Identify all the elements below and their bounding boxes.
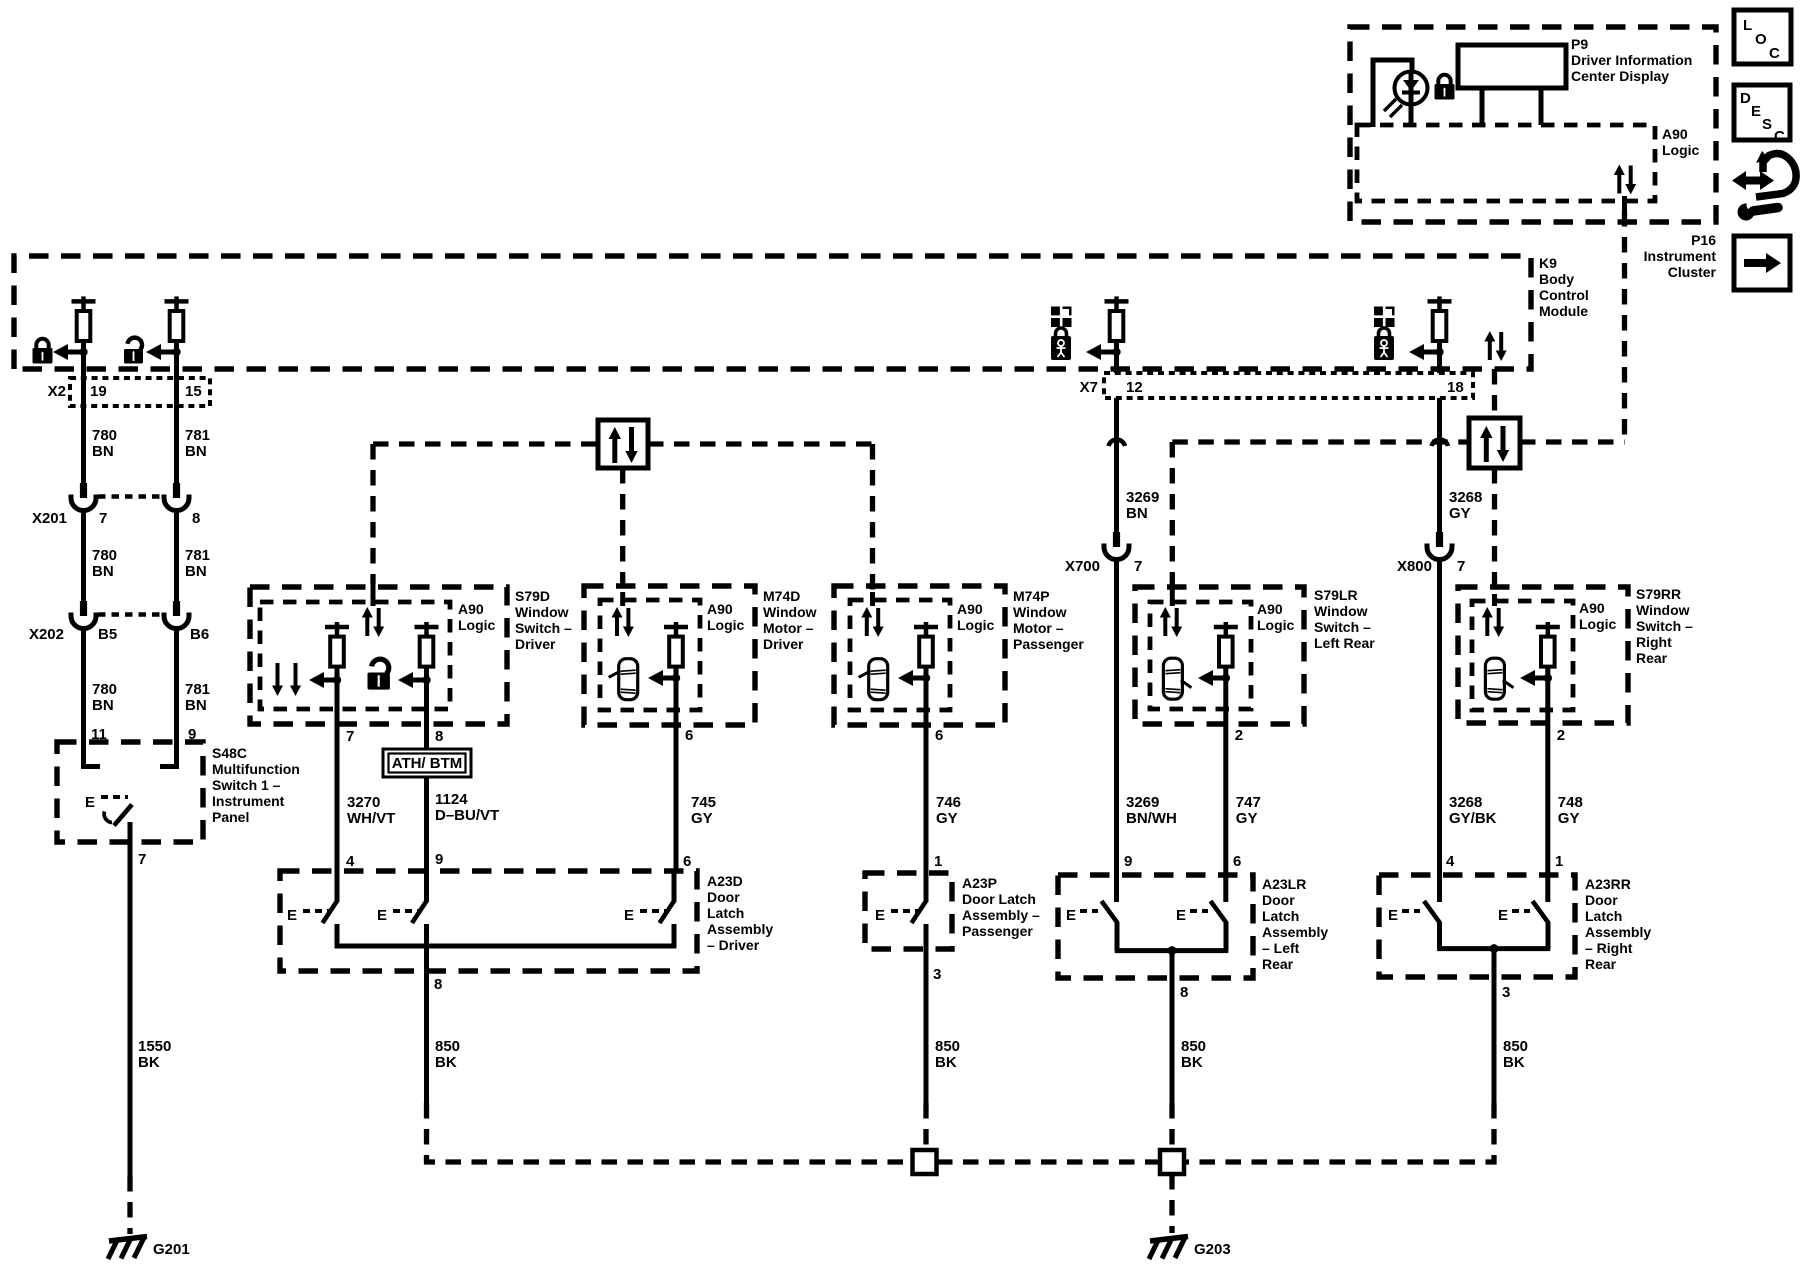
- svg-text:850: 850: [1181, 1038, 1206, 1055]
- wire 748 GY: [1545, 742, 1550, 902]
- text A90 Logic: [1257, 601, 1295, 633]
- svg-text:BN: BN: [1126, 505, 1148, 522]
- pin 8 label: [435, 728, 443, 745]
- pin 4 label (A23RR): [1446, 853, 1455, 870]
- E actuator 2: [377, 907, 420, 924]
- svg-text:780: 780: [92, 547, 117, 564]
- serial data entry stub: [371, 581, 376, 606]
- wire: [1114, 341, 1119, 373]
- latch box A23P: [865, 873, 952, 949]
- wire: [424, 777, 429, 871]
- svg-text:X2: X2: [48, 383, 66, 400]
- svg-text:2: 2: [1557, 727, 1565, 744]
- svg-text:Logic: Logic: [957, 617, 995, 633]
- svg-text:E: E: [287, 907, 297, 924]
- svg-text:1550: 1550: [138, 1038, 171, 1055]
- dashed wire to ground: [127, 1176, 132, 1234]
- dashed wire splice to ground: [1169, 1174, 1174, 1233]
- text P16 Instrument Cluster: [1644, 232, 1717, 280]
- junction + arrow to car icon: [648, 670, 680, 686]
- svg-text:– Left: – Left: [1262, 940, 1300, 956]
- svg-text:S79LR: S79LR: [1314, 587, 1358, 603]
- pin 7 label: [138, 851, 146, 868]
- svg-text:6: 6: [1233, 853, 1241, 870]
- switch output (resistor): [1214, 622, 1238, 667]
- svg-text:A23P: A23P: [962, 875, 997, 891]
- svg-text:Rear: Rear: [1636, 650, 1668, 666]
- ground G203: [1149, 1237, 1188, 1260]
- wire 745 GY label: [691, 794, 716, 827]
- wire 781 BN label: [185, 681, 210, 714]
- svg-text:Motor –: Motor –: [1013, 620, 1064, 636]
- svg-text:L: L: [1743, 17, 1752, 34]
- switch box S79D: [250, 587, 507, 724]
- svg-text:– Right: – Right: [1585, 940, 1633, 956]
- wire: [81, 627, 86, 742]
- text S79RR Window Switch - Right Rear: [1636, 586, 1693, 666]
- wire 3268 GY (X7-18 down): [1437, 398, 1442, 532]
- svg-text:Latch: Latch: [707, 905, 744, 921]
- svg-text:O: O: [1755, 31, 1767, 48]
- E actuator 1: [287, 907, 330, 924]
- serial data up/down arrows (K9): [1484, 331, 1506, 361]
- motor box M74D: [584, 586, 755, 725]
- wire: [924, 666, 929, 742]
- svg-text:G203: G203: [1194, 1241, 1231, 1258]
- text M74D Window Motor - Driver: [763, 588, 817, 652]
- wire: [174, 627, 179, 742]
- serial data wire (dashed) P9 to up/down symbol: [1622, 211, 1627, 445]
- svg-text:3269: 3269: [1126, 794, 1159, 811]
- svg-text:Motor –: Motor –: [763, 620, 814, 636]
- svg-text:Assembly: Assembly: [707, 921, 773, 937]
- svg-text:747: 747: [1236, 794, 1261, 811]
- serial data entry stub: [620, 592, 625, 606]
- text A90 Logic: [1662, 126, 1700, 158]
- dashed wire to ground bus: [427, 1103, 913, 1162]
- junction + arrow to window icon: [1086, 344, 1121, 360]
- switch contact 1 (pin 9): [1102, 901, 1118, 951]
- switch contact 2 (pin 9): [412, 871, 427, 948]
- logic block A90 (M74P): [850, 600, 950, 710]
- serial data up/down arrows (P9): [1614, 165, 1636, 195]
- svg-text:– Driver: – Driver: [707, 937, 760, 953]
- svg-text:Panel: Panel: [212, 809, 249, 825]
- svg-text:D: D: [1740, 90, 1751, 107]
- connector X202 labels: [29, 626, 209, 643]
- svg-text:780: 780: [92, 427, 117, 444]
- svg-text:GY: GY: [936, 810, 958, 827]
- wire 850 BK label: [1503, 1038, 1528, 1071]
- pin 1 label (A23P): [934, 853, 942, 870]
- svg-text:8: 8: [434, 976, 442, 993]
- wire 747 GY label: [1236, 794, 1261, 827]
- child lock padlock icon: [1374, 328, 1394, 360]
- text K9 Body Control Module: [1539, 255, 1589, 319]
- svg-text:781: 781: [185, 547, 210, 564]
- connector X202 dotted tie: [98, 612, 163, 617]
- svg-text:Center Display: Center Display: [1571, 68, 1669, 84]
- serial data branch dashed wires: [1172, 442, 1624, 594]
- svg-text:G201: G201: [153, 1241, 190, 1258]
- wire 850 BK label: [435, 1038, 460, 1071]
- ground bus dashed wire (between splices): [937, 1159, 1160, 1164]
- junction + arrow to down icon: [309, 672, 341, 688]
- text S79D Window Switch - Driver: [515, 588, 572, 652]
- switch box S79RR: [1458, 587, 1628, 723]
- logic block A90 (M74D): [600, 600, 700, 710]
- wire 780 BN label: [92, 547, 117, 580]
- svg-text:6: 6: [935, 727, 943, 744]
- data link connector icon (arrows + wrench): [1732, 151, 1796, 221]
- svg-text:A90: A90: [707, 601, 733, 617]
- junction + arrow to unlock icon: [146, 344, 181, 360]
- svg-text:Window: Window: [1636, 602, 1690, 618]
- pin 2 label: [1557, 727, 1565, 744]
- svg-text:1: 1: [1555, 853, 1563, 870]
- svg-text:3269: 3269: [1126, 489, 1159, 506]
- E actuator 1: [1066, 907, 1098, 924]
- svg-text:A23D: A23D: [707, 873, 743, 889]
- svg-text:Door: Door: [1262, 892, 1295, 908]
- svg-text:850: 850: [1503, 1038, 1528, 1055]
- wire 3269 BN/WH down to A23LR: [1114, 558, 1119, 902]
- text S79LR Window Switch - Left Rear: [1314, 587, 1375, 651]
- svg-text:3268: 3268: [1449, 794, 1482, 811]
- svg-text:BN: BN: [185, 563, 207, 580]
- svg-text:Rear: Rear: [1585, 956, 1617, 972]
- svg-text:S48C: S48C: [212, 745, 247, 761]
- text A90 Logic: [707, 601, 745, 633]
- svg-text:E: E: [1498, 907, 1508, 924]
- switch output (resistor): [1536, 622, 1560, 667]
- svg-text:E: E: [875, 907, 885, 924]
- svg-text:Latch: Latch: [1262, 908, 1299, 924]
- latch box A23D: [280, 871, 697, 971]
- svg-text:6: 6: [683, 853, 691, 870]
- text A23RR Door Latch Assembly - Right Rear: [1585, 876, 1651, 972]
- pin 4 label: [346, 853, 355, 870]
- svg-text:X800: X800: [1397, 558, 1432, 575]
- svg-text:A23RR: A23RR: [1585, 876, 1631, 892]
- junction + arrow to car icon: [898, 670, 930, 686]
- module box P9: [1350, 27, 1716, 222]
- svg-text:S79D: S79D: [515, 588, 550, 604]
- svg-text:GY/BK: GY/BK: [1449, 810, 1497, 827]
- pin 2 label: [1235, 727, 1243, 744]
- S48C E actuator: [85, 794, 128, 811]
- wire 1124 D-BU/VT label: [435, 791, 499, 824]
- inline connector X201 pin 8: [164, 483, 189, 511]
- svg-text:GY: GY: [1236, 810, 1258, 827]
- svg-text:E: E: [1751, 103, 1761, 120]
- wire 748 GY label: [1558, 794, 1583, 827]
- svg-text:X201: X201: [32, 510, 67, 527]
- pin 8 label: [1180, 984, 1188, 1001]
- svg-text:Driver: Driver: [515, 636, 556, 652]
- svg-text:Door: Door: [1585, 892, 1618, 908]
- forward arrow icon box: [1734, 236, 1790, 290]
- logic block A90 (S79D): [260, 602, 450, 709]
- wire: [424, 666, 429, 749]
- svg-text:E: E: [377, 907, 387, 924]
- text A90 Logic: [957, 601, 995, 633]
- car window icon (M74D): [609, 659, 638, 700]
- svg-text:X7: X7: [1080, 379, 1098, 396]
- svg-text:BN: BN: [92, 563, 114, 580]
- svg-text:ATH/ BTM: ATH/ BTM: [392, 755, 463, 772]
- inline connector X202 pin B6: [164, 601, 189, 629]
- svg-text:B6: B6: [190, 626, 209, 643]
- express down double arrows: [272, 663, 301, 696]
- wire pass-through hook: [1432, 440, 1449, 446]
- serial data entry stub: [1170, 584, 1175, 606]
- wire: [674, 666, 679, 742]
- svg-text:A90: A90: [458, 601, 484, 617]
- svg-text:X700: X700: [1065, 558, 1100, 575]
- svg-text:7: 7: [138, 851, 146, 868]
- svg-text:BN: BN: [92, 697, 114, 714]
- svg-text:P9: P9: [1571, 36, 1588, 52]
- svg-text:Rear: Rear: [1262, 956, 1294, 972]
- wire 3270 WH/VT label: [347, 794, 395, 827]
- serial data up/down arrows (S79D): [362, 607, 384, 637]
- serial data up/down arrows (M74P): [861, 607, 883, 637]
- unlock (open padlock) icon (S79D): [368, 659, 390, 689]
- svg-text:A90: A90: [957, 601, 983, 617]
- svg-text:3: 3: [1502, 984, 1510, 1001]
- logic block A90 (S79RR): [1472, 601, 1573, 710]
- logic block A90 (inside P9): [1357, 125, 1655, 201]
- wire to pin 8: [424, 946, 429, 1103]
- switch contact 2 (pin 1): [1533, 901, 1549, 949]
- svg-text:Left Rear: Left Rear: [1314, 635, 1375, 651]
- S48C switch blade: [104, 805, 132, 843]
- common bus wire: [335, 944, 677, 949]
- wire 747 GY: [1223, 742, 1228, 902]
- svg-text:Assembly –: Assembly –: [962, 907, 1040, 923]
- wire to pin 8: [1170, 951, 1175, 1103]
- svg-text:12: 12: [1126, 379, 1143, 396]
- svg-text:Instrument: Instrument: [212, 793, 285, 809]
- svg-text:9: 9: [435, 851, 443, 868]
- svg-text:GY: GY: [1449, 505, 1471, 522]
- svg-text:Logic: Logic: [707, 617, 745, 633]
- text G203: [1194, 1241, 1231, 1258]
- svg-text:1: 1: [934, 853, 942, 870]
- svg-text:8: 8: [1180, 984, 1188, 1001]
- wire 850 BK label: [1181, 1038, 1206, 1071]
- connector strip X7: [1080, 373, 1473, 398]
- inline connector X202 pin B5: [71, 601, 96, 629]
- pin 6 label: [935, 727, 943, 744]
- svg-text:WH/VT: WH/VT: [347, 810, 395, 827]
- svg-text:BN: BN: [185, 697, 207, 714]
- pin 8 label: [434, 976, 442, 993]
- svg-text:S: S: [1762, 116, 1772, 133]
- E actuator 2: [1498, 907, 1530, 924]
- svg-text:S79RR: S79RR: [1636, 586, 1681, 602]
- ATH/BTM tag box: [383, 749, 471, 777]
- svg-text:781: 781: [185, 427, 210, 444]
- svg-text:18: 18: [1447, 379, 1464, 396]
- inline connector X800: [1427, 532, 1452, 560]
- svg-text:3270: 3270: [347, 794, 380, 811]
- pin 9 label (A23LR): [1124, 853, 1132, 870]
- pin 6 label (A23LR): [1233, 853, 1241, 870]
- splice S2: [1160, 1150, 1184, 1174]
- window icon: [1051, 307, 1072, 328]
- svg-text:BK: BK: [435, 1054, 457, 1071]
- pin 3 label: [1502, 984, 1510, 1001]
- svg-text:E: E: [1388, 907, 1398, 924]
- connector strip X2: [48, 378, 210, 406]
- svg-text:Cluster: Cluster: [1668, 264, 1717, 280]
- svg-text:M74D: M74D: [763, 588, 800, 604]
- window icon: [1374, 307, 1395, 328]
- pin 1 label (A23RR): [1555, 853, 1563, 870]
- svg-text:C: C: [1769, 45, 1780, 62]
- junction + arrow to lock icon: [53, 344, 88, 360]
- svg-text:8: 8: [192, 510, 200, 527]
- svg-text:Assembly: Assembly: [1262, 924, 1328, 940]
- svg-text:E: E: [1066, 907, 1076, 924]
- wire: [81, 509, 86, 601]
- svg-text:Control: Control: [1539, 287, 1589, 303]
- svg-text:D–BU/VT: D–BU/VT: [435, 807, 499, 824]
- svg-text:Module: Module: [1539, 303, 1588, 319]
- splice S1: [913, 1150, 937, 1174]
- dashed wire to ground bus: [1183, 1103, 1494, 1162]
- wire 780 BN label: [92, 681, 117, 714]
- E actuator 2: [1176, 907, 1208, 924]
- wire 1550 BK: [128, 842, 133, 1176]
- logic block A90 (S79LR): [1150, 602, 1251, 709]
- serial data entry stub: [1492, 594, 1497, 606]
- svg-text:E: E: [1176, 907, 1186, 924]
- wire 3269 BN (X7-12 down): [1114, 398, 1119, 532]
- up/down arrows symbol box: [598, 420, 648, 468]
- wire pass-through hook: [1109, 440, 1126, 446]
- S48C fixed contact left: [84, 742, 101, 767]
- svg-text:4: 4: [1446, 853, 1455, 870]
- svg-text:Latch: Latch: [1585, 908, 1622, 924]
- wire 781 BN label: [185, 427, 210, 460]
- switch contact 1 (pin 4): [323, 742, 338, 948]
- svg-text:Switch –: Switch –: [1314, 619, 1371, 635]
- svg-text:GY: GY: [1558, 810, 1580, 827]
- svg-text:C: C: [1774, 128, 1785, 145]
- svg-text:Window: Window: [1013, 604, 1067, 620]
- module box K9 Body Control Module: [14, 256, 1531, 369]
- window up/auto output (resistor): [415, 622, 439, 667]
- svg-text:BN: BN: [92, 443, 114, 460]
- junction + arrow to car icon: [1520, 670, 1552, 686]
- svg-text:M74P: M74P: [1013, 588, 1050, 604]
- svg-text:Switch –: Switch –: [515, 620, 572, 636]
- svg-text:4: 4: [346, 853, 355, 870]
- switch box S48C: [57, 742, 203, 842]
- svg-text:A90: A90: [1257, 601, 1283, 617]
- serial data up/down arrows (S79LR): [1160, 607, 1182, 637]
- svg-text:1124: 1124: [435, 791, 468, 808]
- svg-text:B5: B5: [98, 626, 117, 643]
- wire 781 BN label: [185, 547, 210, 580]
- pin 7 label: [346, 728, 354, 745]
- svg-text:Driver Information: Driver Information: [1571, 52, 1692, 68]
- svg-text:BN: BN: [185, 443, 207, 460]
- switch contact 3 (pin 6): [660, 871, 675, 948]
- wire: [1437, 341, 1442, 373]
- serial data entry stub: [870, 592, 875, 606]
- svg-text:Passenger: Passenger: [1013, 636, 1084, 652]
- svg-text:Multifunction: Multifunction: [212, 761, 300, 777]
- svg-text:Door: Door: [707, 889, 740, 905]
- serial data up/down arrows (S79RR): [1482, 607, 1504, 637]
- latch box A23LR: [1058, 875, 1253, 978]
- S48C fixed contact right: [160, 742, 177, 767]
- svg-text:Logic: Logic: [458, 617, 496, 633]
- pin 3 label: [933, 966, 941, 983]
- svg-text:850: 850: [935, 1038, 960, 1055]
- motor output (resistor): [664, 622, 688, 667]
- connector X800 labels: [1397, 558, 1465, 575]
- wire stub below arrows: [1622, 196, 1627, 211]
- svg-text:Switch –: Switch –: [1636, 618, 1693, 634]
- inline connector X700: [1104, 532, 1129, 560]
- svg-text:8: 8: [435, 728, 443, 745]
- pin 6 label (A23D): [683, 853, 691, 870]
- car window icon (M74P): [859, 659, 888, 700]
- svg-text:BK: BK: [138, 1054, 160, 1071]
- wire 745 GY: [674, 742, 679, 871]
- connector X201 labels: [32, 510, 200, 527]
- dashed wire to splice: [923, 1103, 928, 1152]
- svg-text:K9: K9: [1539, 255, 1557, 271]
- driver output (window left rear) inside K9: [1105, 296, 1129, 341]
- display unit icon (DIC screen): [1458, 45, 1566, 125]
- text G201: [153, 1241, 190, 1258]
- motor output (resistor): [914, 622, 938, 667]
- connector X700 labels: [1065, 558, 1142, 575]
- svg-text:781: 781: [185, 681, 210, 698]
- wire to pin 3: [1492, 949, 1497, 1103]
- svg-text:3: 3: [933, 966, 941, 983]
- svg-text:GY: GY: [691, 810, 713, 827]
- wire 3269 BN label: [1126, 489, 1159, 522]
- text A23P Door Latch Assembly - Passenger: [962, 875, 1040, 939]
- pin 9 label: [188, 726, 196, 743]
- common bus wire: [1437, 944, 1550, 953]
- wire 3268 GY/BK down to A23RR: [1437, 558, 1442, 902]
- latch box A23RR: [1379, 875, 1575, 977]
- car window icon (S79RR): [1485, 658, 1513, 699]
- switch contact 2 (pin 6): [1211, 901, 1227, 951]
- pin 9 label: [435, 851, 443, 868]
- svg-text:A90: A90: [1662, 126, 1688, 142]
- up/down arrows symbol box: [1469, 418, 1520, 468]
- svg-text:Window: Window: [1314, 603, 1368, 619]
- svg-text:A23LR: A23LR: [1262, 876, 1306, 892]
- text S48C Multifunction Switch 1 - Instrument Panel: [212, 745, 300, 825]
- svg-text:P16: P16: [1691, 232, 1716, 248]
- wire: [1223, 666, 1228, 742]
- LED / door-ajar indicator icon: [1373, 60, 1428, 127]
- svg-text:7: 7: [99, 510, 107, 527]
- svg-text:19: 19: [90, 383, 107, 400]
- text A90 Logic: [1579, 600, 1617, 632]
- connector X201 dotted tie: [98, 494, 163, 499]
